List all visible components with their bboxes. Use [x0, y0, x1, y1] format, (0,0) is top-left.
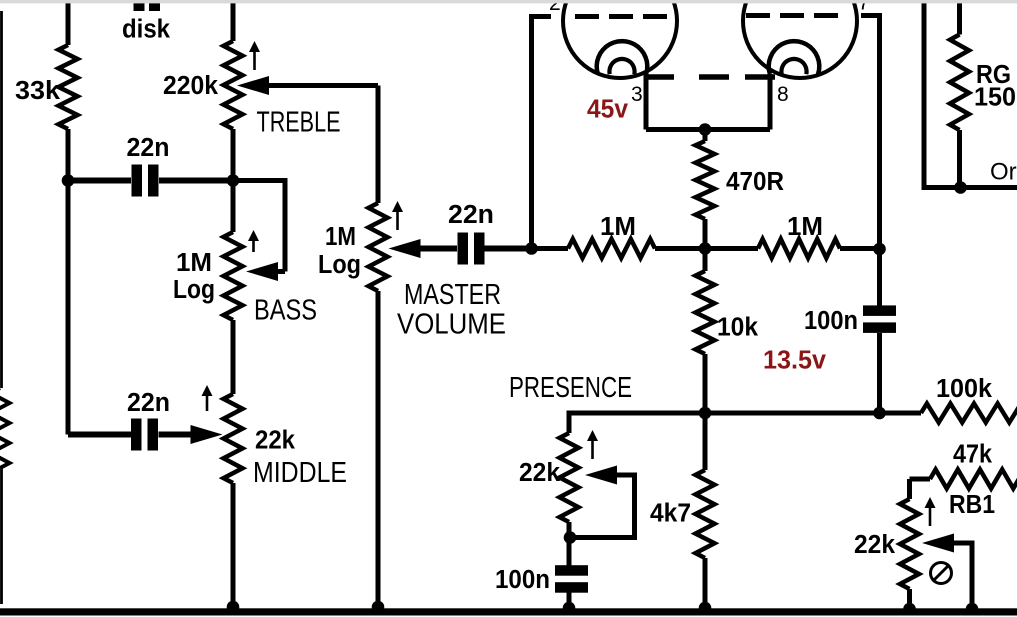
svg-text:disk: disk [122, 16, 171, 44]
svg-text:RB1: RB1 [949, 491, 995, 519]
node junction [525, 242, 538, 255]
svg-text:MIDDLE: MIDDLE [253, 457, 347, 489]
capacitor 100n (presence) [555, 565, 588, 576]
svg-text:1M: 1M [600, 213, 636, 241]
wire [66, 129, 71, 435]
svg-text:1M: 1M [325, 223, 356, 251]
wire [907, 479, 912, 499]
capacitor 22n (slope) [68, 178, 233, 184]
wire [268, 83, 378, 88]
rotation arrow (middle) [206, 394, 209, 411]
capacitor 22n (master volume) [420, 246, 532, 252]
node junction [62, 174, 75, 187]
svg-text:Or: Or [990, 159, 1017, 186]
wire [376, 86, 381, 204]
svg-text:100n: 100n [495, 566, 550, 594]
svg-text:22n: 22n [448, 201, 494, 229]
node junction [903, 603, 916, 616]
svg-text:VOLUME: VOLUME [397, 309, 506, 341]
wire (cathode leads) [646, 74, 770, 130]
capacitor 100n (feedback) [863, 305, 896, 316]
node junction [372, 601, 385, 614]
svg-text:Log: Log [318, 251, 361, 279]
svg-text:8: 8 [777, 83, 789, 106]
capacitor disk (clipped at top) [134, 3, 145, 11]
potentiometer MASTER VOLUME 1M Log [369, 203, 388, 291]
wire [907, 589, 912, 606]
svg-text:220k: 220k [163, 72, 219, 100]
wire (bass wiper loop) [233, 181, 285, 272]
rotation arrow (bass) [252, 239, 255, 252]
resistor 47k [910, 477, 931, 482]
cathode (right valve) [769, 41, 820, 74]
wiper arrow (RB1) [922, 534, 954, 553]
svg-text:33k: 33k [15, 77, 61, 105]
wire (presence rail) [569, 413, 921, 433]
node junction [954, 181, 967, 194]
rotation arrow (treble) [253, 50, 256, 70]
rotation arrow (master volume) [396, 210, 399, 230]
node junction [966, 603, 979, 616]
screenshot crop strip [0, 0, 1017, 3]
wire (output stage frame) [924, 3, 1017, 188]
phase symbol [931, 563, 952, 584]
node junction [699, 602, 712, 615]
wire [231, 129, 236, 232]
wiper arrow (master volume) [389, 239, 421, 258]
svg-text:45v: 45v [587, 96, 629, 124]
ground bus [0, 608, 1017, 615]
svg-text:MASTER: MASTER [404, 279, 501, 311]
svg-text:22k: 22k [519, 459, 561, 487]
svg-text:22n: 22n [127, 134, 170, 162]
svg-text:1M: 1M [787, 213, 823, 241]
wire (presence wiper loop) [569, 475, 635, 538]
valve V envelope (left) [563, 0, 677, 78]
wiper arrow (middle) [191, 425, 223, 444]
valve V envelope (right) [743, 0, 857, 78]
wire [66, 3, 71, 45]
node junction [699, 242, 712, 255]
svg-text:22k: 22k [255, 427, 296, 455]
svg-text:BASS: BASS [254, 295, 317, 327]
resistor 33k [59, 45, 78, 129]
wire (pin 7 lead) [861, 16, 880, 306]
svg-text:100n: 100n [804, 307, 858, 335]
svg-text:47k: 47k [953, 441, 993, 469]
wiper arrow (bass) [246, 262, 278, 281]
resistor (clipped at left edge) [0, 388, 10, 468]
svg-text:4k7: 4k7 [650, 500, 691, 528]
resistor RG 150k [957, 3, 962, 35]
node junction [699, 123, 712, 136]
node junction [564, 531, 577, 544]
node junction [563, 602, 576, 615]
node junction [699, 407, 712, 420]
resistor 470R [703, 130, 708, 142]
grid (dashed, left valve) [575, 14, 670, 19]
cathode (left valve) [597, 41, 648, 74]
svg-text:10k: 10k [717, 314, 759, 342]
rotation arrow (presence) [591, 439, 594, 459]
resistor 1M (left) [532, 246, 569, 251]
svg-text:22k: 22k [854, 531, 896, 559]
svg-text:22n: 22n [127, 389, 170, 417]
node junction [873, 407, 886, 420]
potentiometer MIDDLE 22k [224, 394, 243, 483]
potentiometer PRESENCE 22k [560, 433, 579, 522]
node junction [227, 601, 240, 614]
svg-text:470R: 470R [726, 168, 784, 196]
wire [877, 333, 882, 413]
wire [231, 483, 236, 606]
wire [567, 592, 572, 606]
svg-text:100k: 100k [936, 375, 993, 403]
resistor 1M (right) [705, 246, 758, 251]
node junction [227, 174, 240, 187]
wire [231, 3, 236, 41]
resistor 100k [921, 404, 1017, 423]
svg-text:150k: 150k [974, 84, 1017, 112]
capacitor 22n (middle feed) [159, 432, 193, 438]
potentiometer RB1 22k [900, 499, 919, 589]
node junction [873, 243, 886, 256]
wire (left edge, clipped) [0, 11, 3, 604]
wire (RB1 wiper) [953, 543, 972, 606]
svg-text:PRESENCE: PRESENCE [509, 372, 632, 404]
wire (grid pin 2 lead) [532, 17, 552, 251]
resistor 4k7 [703, 413, 708, 470]
potentiometer TREBLE 220k [224, 41, 243, 129]
svg-text:TREBLE: TREBLE [257, 107, 341, 139]
grid (dashed, right valve) [746, 13, 838, 18]
svg-text:1M: 1M [176, 249, 212, 277]
resistor 10k [703, 249, 708, 272]
wire [231, 320, 236, 394]
svg-text:13.5v: 13.5v [763, 347, 827, 375]
wiper arrow (presence) [585, 466, 617, 485]
svg-text:3: 3 [631, 83, 643, 106]
wire [376, 291, 381, 606]
wiper arrow (treble) [237, 76, 269, 95]
grid (dashed, centre) [644, 74, 775, 80]
rotation arrow (RB1) [929, 506, 932, 526]
potentiometer BASS 1M Log [224, 232, 243, 320]
wire [567, 522, 572, 566]
svg-text:Log: Log [173, 276, 215, 304]
